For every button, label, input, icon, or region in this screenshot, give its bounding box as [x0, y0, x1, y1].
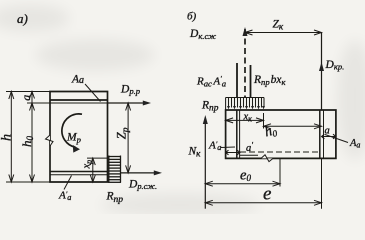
- dimension xk: [226, 113, 264, 129]
- force Dk.szh dashed line with up arrow: [244, 29, 246, 98]
- svg-text:Аа: Аа: [71, 74, 84, 86]
- dimension Zk: [245, 30, 322, 35]
- force line Rnp b xk: [250, 65, 252, 98]
- dimension a (fig b right): [322, 134, 336, 139]
- extension line top: [6, 91, 50, 93]
- dimension a (top left): [30, 92, 35, 104]
- distributed load arrow tips under hatch: [227, 106, 265, 109]
- force Nk arrow: [204, 118, 206, 209]
- extension line at centroid for e0: [279, 158, 281, 186]
- dimension Xp: [87, 157, 108, 159]
- svg-text:а): а): [17, 11, 28, 26]
- centroid dashed line: [240, 151, 320, 153]
- reinforcement A'a bars (fig b): [236, 110, 238, 158]
- break mark on left edge: [46, 135, 54, 146]
- force Dp.p arrow: [108, 102, 149, 104]
- dimension Zp: [126, 103, 131, 173]
- dimension a': [226, 150, 240, 155]
- dimension e0: [205, 181, 280, 186]
- svg-text:Аа: Аа: [349, 138, 360, 150]
- moment Mp arc: [62, 114, 82, 147]
- dimension h0: [30, 103, 35, 182]
- dimension h: [9, 92, 14, 183]
- svg-text:е: е: [263, 184, 271, 205]
- extension line right for e: [321, 158, 323, 208]
- svg-text:h: h: [0, 134, 15, 141]
- dimension h0 (fig b): [264, 124, 322, 129]
- break mark on bottom edge: [261, 155, 273, 162]
- extension / force line Dkr: [321, 33, 323, 111]
- svg-text:Dр.р: Dр.р: [120, 84, 141, 97]
- force Dp.szh arrow: [121, 172, 160, 174]
- reinforcement Aa bars (fig b): [319, 110, 321, 158]
- svg-text:б): б): [187, 11, 197, 23]
- Rnp stress block ladder (fig a): [108, 156, 121, 183]
- svg-text:а: а: [19, 95, 33, 101]
- dimension e: [205, 200, 321, 205]
- Rnp compression stress strip with hatch: [226, 98, 264, 111]
- extension line bottom: [6, 181, 50, 183]
- svg-text:Rпрbхк: Rпрbхк: [253, 74, 286, 87]
- extension line at Aa level: [27, 102, 50, 104]
- section outline (fig a): [50, 92, 108, 183]
- force line Rac A'a: [236, 63, 238, 98]
- top reinforcement Aa bars: [50, 99, 108, 101]
- svg-text:Dкр.: Dкр.: [325, 59, 345, 72]
- bottom reinforcement A'a bars: [50, 171, 108, 173]
- section outline (fig b): [226, 110, 336, 158]
